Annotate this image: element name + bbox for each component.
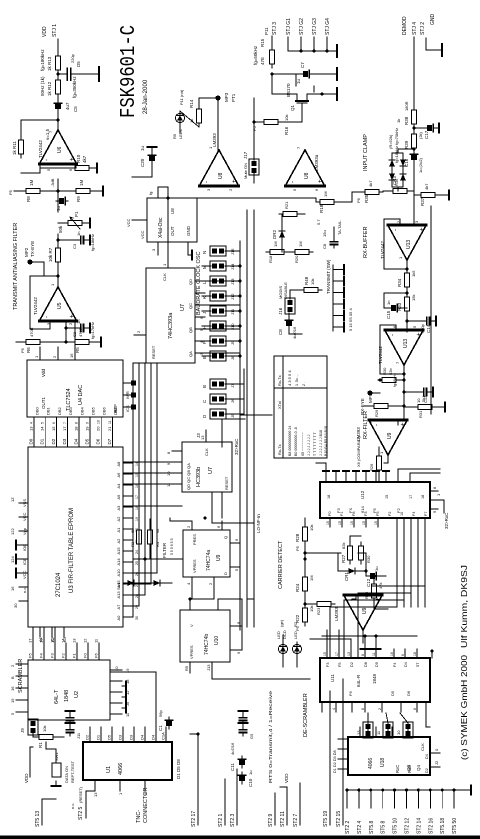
svg-text:A3: A3 — [116, 505, 121, 511]
capacitor C16 — [410, 151, 417, 163]
svg-text:1u: 1u — [140, 145, 145, 151]
demod input long wire — [413, 37, 415, 210]
svg-text:D1: D1 — [40, 438, 45, 444]
svg-text:n.c.: n.c. — [22, 587, 27, 593]
svg-text:J J J J J J J B18: J J J J J J J B18 — [319, 430, 323, 456]
wire R16 to mute line — [254, 121, 260, 123]
svg-text:F4: F4 — [393, 663, 397, 667]
svg-text:VSS: VSS — [22, 499, 27, 507]
svg-text:D1 D2 D3 D8: D1 D2 D3 D8 — [333, 750, 337, 773]
U9 clk wire — [170, 520, 192, 522]
IC U7 74HC393 baudrate counter — [146, 268, 195, 363]
svg-text:6k: 6k — [155, 529, 160, 533]
svg-text:ST2 7: ST2 7 — [293, 813, 299, 827]
svg-text:6: 6 — [314, 188, 319, 191]
capacitor C14 — [423, 317, 433, 324]
LED D3 — [175, 111, 184, 125]
svg-text:J2: J2 — [434, 760, 439, 765]
svg-text:19: 19 — [85, 426, 90, 431]
svg-text:7: 7 — [63, 422, 67, 424]
resistor R39 — [411, 130, 416, 152]
measurement point MP2 TX-EYE — [27, 259, 32, 264]
svg-text:2: 2 — [68, 322, 73, 325]
U5a feedback — [30, 275, 58, 277]
svg-text:B: B — [10, 676, 15, 679]
diode DR2 — [279, 227, 285, 241]
resistor R35 — [361, 189, 383, 194]
IC U9 74HC74 flipflop — [183, 530, 230, 577]
svg-text:(ge): (ge) — [279, 619, 284, 627]
svg-text:n.c.: n.c. — [70, 803, 75, 809]
svg-text:STJ G2: STJ G2 — [299, 18, 305, 35]
svg-text:56p: 56p — [158, 710, 163, 717]
svg-text:1u: 1u — [248, 771, 253, 775]
U7 reset pin — [134, 334, 146, 336]
svg-text:F2: F2 — [388, 512, 392, 516]
resistor R15 — [269, 46, 274, 68]
svg-text:/CS: /CS — [125, 405, 130, 412]
pot top wire — [58, 222, 64, 224]
svg-text:RxC: RxC — [395, 765, 400, 773]
svg-text:15: 15 — [135, 473, 139, 477]
svg-text:18: 18 — [327, 495, 331, 499]
svg-text:122: 122 — [10, 528, 15, 535]
svg-text:C8: C8 — [322, 243, 327, 249]
svg-text:9: 9 — [86, 422, 90, 424]
svg-text:14: 14 — [135, 462, 139, 466]
svg-text:GND: GND — [430, 14, 436, 26]
svg-text:Vdd: Vdd — [41, 368, 46, 377]
svg-text:10: 10 — [396, 730, 401, 735]
svg-text:6: 6 — [234, 538, 239, 541]
resistor R10 — [71, 165, 93, 170]
U12 right pins with decoupling grounds — [323, 471, 389, 482]
svg-text:C17: C17 — [424, 130, 429, 139]
svg-text:C7: C7 — [300, 62, 305, 68]
svg-text:17: 17 — [135, 495, 139, 499]
svg-text:16: 16 — [10, 586, 15, 591]
address bus lines — [133, 363, 160, 617]
capacitor C15 — [388, 304, 400, 311]
LO-NF-In line — [253, 210, 255, 627]
svg-text:16: 16 — [390, 652, 394, 656]
svg-text:D4: D4 — [140, 734, 145, 740]
svg-text:STJ 2: STJ 2 — [420, 22, 426, 35]
svg-text:15u: 15u — [322, 230, 327, 237]
svg-text:1M: 1M — [309, 575, 314, 581]
U1 left pins — [94, 780, 96, 791]
wire pot to ecap C20 — [57, 201, 59, 212]
svg-text:P11: P11 — [264, 27, 269, 35]
U13b output wire — [403, 365, 405, 373]
U11 left pins — [322, 702, 417, 712]
op-amp U14b PLL comparator — [344, 595, 383, 630]
svg-text:B0 00000000-0 -8: B0 00000000-0 -8 — [294, 427, 298, 456]
svg-text:1M: 1M — [79, 179, 84, 186]
svg-text:PT1: PT1 — [231, 93, 236, 102]
wire U6 minus input — [75, 164, 77, 168]
svg-text:F2: F2 — [61, 653, 66, 658]
vertical trunk wire — [240, 414, 272, 416]
svg-text:U13: U13 — [406, 240, 412, 249]
svg-text:1u: 1u — [296, 78, 301, 84]
svg-text:U9: U9 — [387, 432, 393, 439]
svg-text:LED: LED — [293, 631, 298, 639]
svg-text:8: 8 — [413, 708, 417, 710]
svg-text:C20: C20 — [140, 158, 145, 167]
address bus to counters — [205, 352, 240, 354]
svg-text:fg=180kHz: fg=180kHz — [40, 49, 45, 71]
transistor Q1 BS170 — [293, 94, 311, 108]
jumper J3 — [403, 722, 413, 738]
svg-text:D4: D4 — [425, 754, 429, 759]
svg-text:DB2: DB2 — [57, 406, 62, 415]
svg-text:U8: U8 — [170, 208, 175, 214]
svg-text:64L-R: 64L-R — [356, 674, 361, 687]
svg-text:RX-BUFFER: RX-BUFFER — [363, 227, 369, 259]
jumper wires U11-U18 — [367, 723, 369, 737]
IC U2 scrambler 64L-T — [28, 660, 110, 720]
svg-text:82k: 82k — [341, 543, 346, 549]
IC U1 TNC connector block — [83, 742, 172, 780]
svg-text:14: 14 — [40, 426, 45, 431]
U9 pins — [191, 577, 193, 587]
svg-text:Ulf Kumm, DK9SJ: Ulf Kumm, DK9SJ — [459, 565, 469, 648]
resistor R14 — [196, 105, 201, 127]
svg-text:64L-T: 64L-T — [54, 689, 60, 704]
svg-text:8: 8 — [361, 708, 365, 710]
wire C5 to opamp U6 — [57, 112, 59, 130]
resistor R4 filter select — [147, 526, 152, 548]
svg-text:ST2 14: ST2 14 — [416, 818, 422, 834]
svg-text:ST2 9: ST2 9 — [268, 813, 274, 827]
svg-text:STJ G1: STJ G1 — [286, 18, 292, 35]
svg-text:1k R12: 1k R12 — [47, 81, 52, 96]
wire to U18 — [425, 702, 427, 727]
svg-text:U12: U12 — [360, 490, 365, 499]
svg-text:D5: D5 — [107, 734, 112, 740]
svg-text:17: 17 — [28, 638, 33, 643]
svg-text:U8: U8 — [304, 172, 310, 179]
svg-text:U9: U9 — [216, 554, 222, 561]
svg-text:DB7: DB7 — [113, 406, 118, 415]
carrier detect wires — [358, 552, 366, 554]
svg-text:OUT1: OUT1 — [41, 397, 46, 409]
long bus line B — [246, 210, 248, 627]
resistor R37 — [417, 192, 439, 197]
svg-text:U11: U11 — [330, 674, 335, 682]
svg-text:U8: U8 — [218, 172, 224, 179]
svg-text:A7: A7 — [116, 604, 121, 610]
svg-text:-: - — [44, 316, 50, 318]
svg-text:R35: R35 — [364, 194, 369, 203]
svg-text:F1: F1 — [340, 512, 344, 516]
svg-text:F0: F0 — [328, 512, 332, 516]
svg-text:U18: U18 — [380, 758, 386, 767]
svg-text:F5: F5 — [338, 663, 342, 667]
svg-text:A2: A2 — [116, 538, 121, 544]
svg-text:4: 4 — [30, 422, 34, 424]
svg-text:15: 15 — [362, 521, 366, 525]
svg-text:U6: U6 — [57, 146, 63, 153]
filter select wires — [138, 548, 140, 559]
svg-text:17: 17 — [62, 426, 67, 431]
svg-text:ST5.8: ST5.8 — [369, 820, 375, 834]
U11 right pin grounds — [361, 649, 370, 653]
svg-text:R3: R3 — [130, 541, 135, 547]
LED to R14 wire — [180, 111, 199, 127]
svg-text:2: 2 — [10, 664, 15, 667]
transistor D5 mosfet — [58, 73, 67, 75]
svg-text:1: 1 — [398, 256, 403, 259]
svg-text:+: + — [419, 227, 425, 231]
svg-text:J3: J3 — [196, 433, 201, 438]
junction dots misc — [204, 517, 207, 520]
svg-text:B10 B4 B5 B3 B18: B10 B4 B5 B3 B18 — [324, 426, 328, 456]
svg-text:1u (2u2): 1u (2u2) — [418, 157, 423, 173]
ground pins above U3 — [16, 569, 19, 578]
svg-text:VCC: VCC — [22, 512, 27, 521]
IC U12 FX614 modem — [320, 482, 430, 518]
svg-text:RxD: RxD — [407, 765, 412, 773]
svg-text:05 ~~~~~~~~~: 05 ~~~~~~~~~ — [301, 432, 305, 456]
svg-text:VDD: VDD — [284, 773, 289, 783]
svg-text:CLK: CLK — [162, 273, 167, 281]
svg-text:TRANSMIT (SW): TRANSMIT (SW) — [326, 259, 331, 294]
svg-text:U7: U7 — [180, 304, 186, 311]
svg-text:P5: P5 — [20, 347, 25, 353]
svg-text:D3: D3 — [129, 734, 134, 740]
wires U7b to U12 — [221, 492, 223, 518]
op-amp U13b RX filter — [385, 330, 424, 365]
svg-text:TLV2442: TLV2442 — [33, 297, 38, 315]
svg-text:0: 0 — [434, 748, 439, 751]
svg-text:DB1: DB1 — [46, 406, 51, 415]
U18 right pins — [359, 727, 361, 737]
second jumper group J5-J7 — [210, 369, 244, 419]
svg-text:15: 15 — [326, 521, 330, 525]
svg-text:CR1: CR1 — [344, 572, 349, 581]
svg-text:U7: U7 — [208, 467, 214, 474]
svg-text:13: 13 — [93, 792, 98, 797]
svg-text:P5: P5 — [295, 545, 300, 551]
svg-text:DB4: DB4 — [79, 406, 84, 415]
svg-text:10k R7: 10k R7 — [48, 247, 53, 262]
STJ G bus vertical with ground — [288, 50, 337, 52]
svg-text:470R: 470R — [78, 327, 83, 337]
wire R34 to R33 — [406, 291, 408, 293]
wire R7 to pot — [57, 234, 59, 244]
svg-text:QC: QC — [188, 303, 193, 309]
wire U8a out to MP3 node — [217, 98, 219, 150]
left bus stubs — [345, 789, 458, 835]
svg-text:R10: R10 — [76, 154, 81, 163]
svg-text:16: 16 — [10, 686, 15, 691]
svg-text:J11: J11 — [76, 732, 81, 739]
svg-text:16: 16 — [135, 484, 139, 488]
svg-text:1: 1 — [34, 355, 39, 358]
resistor R21 — [279, 211, 301, 216]
svg-text:DB5: DB5 — [91, 406, 96, 415]
svg-text:-: - — [374, 424, 380, 426]
svg-text:11: 11 — [372, 652, 376, 656]
caps near U2 — [66, 726, 73, 736]
DIP settings table — [274, 356, 327, 458]
analog ground rail — [430, 206, 432, 414]
wires J16 C8 — [288, 313, 290, 317]
U11 pin 1 5 stubs right — [431, 651, 433, 658]
resistor R28 — [302, 523, 307, 545]
svg-text:15: 15 — [350, 521, 354, 525]
svg-text:9: 9 — [433, 511, 437, 513]
svg-text:J J J J J J J J: J J J J J J J J — [307, 434, 311, 456]
svg-text:15: 15 — [50, 638, 55, 643]
svg-text:DISABLE: DISABLE — [283, 282, 288, 299]
svg-text:QD QC QB QA: QD QC QB QA — [186, 463, 191, 490]
left bus vertical — [347, 789, 466, 791]
svg-text:4 3 5 5 4: 4 3 5 5 4 — [287, 370, 292, 386]
svg-text:16: 16 — [69, 353, 74, 358]
svg-text:D5: D5 — [76, 61, 81, 67]
svg-text:U4 DAC: U4 DAC — [78, 385, 84, 405]
svg-text:4k7: 4k7 — [424, 183, 429, 190]
capacitor C5 — [54, 100, 61, 112]
svg-text:+: + — [70, 157, 76, 161]
svg-text:Q: Q — [223, 536, 228, 539]
svg-text:VCC: VCC — [126, 218, 131, 227]
U4 data input labels — [30, 406, 118, 424]
svg-text:DB6: DB6 — [102, 406, 107, 415]
svg-text:STJ G3: STJ G3 — [312, 18, 318, 35]
svg-text:R5: R5 — [184, 665, 189, 671]
modem right bus wires — [325, 463, 327, 473]
svg-text:10k: 10k — [42, 726, 47, 732]
wire DAC out to U5a plus — [74, 321, 76, 347]
svg-text:25: 25 — [135, 561, 139, 565]
svg-text:P5: P5 — [252, 125, 257, 131]
svg-text:D0: D0 — [29, 438, 34, 444]
svg-text:1M: 1M — [298, 241, 303, 247]
svg-text:D1: D1 — [96, 734, 101, 740]
svg-text:J9: J9 — [20, 728, 25, 733]
svg-text:11: 11 — [108, 420, 112, 424]
U13a output wire — [406, 260, 408, 268]
op-amp U5a TLV2442a — [39, 287, 76, 321]
svg-text:470R: 470R — [29, 327, 34, 337]
svg-text:HC393b: HC393b — [196, 467, 202, 487]
IC U11 descrambler 64L-R — [320, 658, 430, 702]
jumper J2 — [383, 722, 393, 738]
svg-text:15: 15 — [374, 521, 378, 525]
jumper J16 — [285, 298, 295, 314]
svg-text:C2: C2 — [72, 331, 77, 337]
svg-text:DATA ON: DATA ON — [64, 766, 69, 783]
svg-text:10k: 10k — [309, 606, 314, 612]
svg-text:13: 13 — [72, 638, 77, 643]
svg-text:C3: C3 — [72, 243, 77, 249]
svg-text:+: + — [70, 314, 76, 318]
svg-text:R23: R23 — [316, 607, 321, 615]
U7 output pins bottom — [188, 279, 205, 357]
svg-text:ST5 8: ST5 8 — [381, 820, 387, 834]
svg-text:10k: 10k — [310, 279, 315, 285]
svg-text:1: 1 — [118, 792, 123, 795]
svg-text:17: 17 — [335, 652, 339, 656]
svg-text:15: 15 — [323, 652, 327, 656]
svg-text:10: 10 — [400, 512, 404, 516]
resistor R13 — [55, 52, 60, 74]
svg-text:15: 15 — [338, 521, 342, 525]
jumper J1 — [363, 722, 373, 738]
wires bias — [288, 251, 291, 253]
svg-text:TA-TAIL: TA-TAIL — [337, 220, 342, 235]
svg-text:Vpp: Vpp — [22, 527, 27, 535]
measurement point MP1 — [367, 390, 372, 395]
svg-text:ST5 19: ST5 19 — [323, 811, 329, 827]
svg-text:A15: A15 — [116, 547, 121, 555]
svg-text:74HC393a: 74HC393a — [168, 312, 174, 339]
jumper J17 mute — [249, 159, 259, 175]
svg-text:U13: U13 — [403, 339, 409, 348]
svg-text:1k5: 1k5 — [411, 270, 416, 277]
bus drops left — [239, 627, 241, 630]
Q1 drain wire to R15 node — [272, 93, 293, 95]
wire R12-R13 — [57, 74, 59, 76]
svg-text:11: 11 — [166, 482, 171, 487]
op-amp U8a LM393 — [199, 150, 239, 186]
svg-text:6: 6 — [52, 422, 56, 424]
U7 clock pin — [167, 255, 169, 268]
svg-text:Mute ON: Mute ON — [243, 163, 248, 179]
transmit switch rail — [332, 265, 334, 331]
U5 pins — [157, 242, 159, 255]
svg-text:Sw1: Sw1 — [116, 581, 121, 590]
xtal osc out wire — [158, 186, 168, 188]
U1 right edge pins — [85, 727, 167, 742]
U2 right pins to U3 — [28, 627, 100, 660]
comparator out to modem — [387, 455, 389, 463]
jumper J9 — [28, 719, 38, 735]
svg-text:P1: P1 — [74, 211, 79, 217]
svg-text:LO-NF-In: LO-NF-In — [256, 514, 261, 533]
svg-text:3: 3 — [206, 188, 211, 191]
svg-text:74HC74a: 74HC74a — [206, 550, 212, 571]
svg-text:10: 10 — [97, 420, 101, 424]
svg-text:GND: GND — [186, 225, 191, 236]
U12 left pins F-bus — [326, 518, 425, 607]
jumper row bus — [225, 241, 242, 358]
svg-text:LM393a: LM393a — [314, 154, 319, 171]
svg-text:+: + — [318, 179, 324, 183]
svg-text:4u7/16: 4u7/16 — [230, 742, 235, 755]
resistor R3 filter select — [136, 526, 141, 548]
svg-text:(RESET): (RESET) — [78, 786, 83, 803]
svg-text:fg=18kHz fg=70kHz: fg=18kHz fg=70kHz — [394, 128, 399, 163]
svg-text:5: 5 — [234, 568, 239, 571]
svg-text:2: 2 — [52, 355, 57, 358]
svg-text:ST5 50: ST5 50 — [452, 818, 458, 834]
comparator input wire — [403, 403, 405, 420]
svg-text:DEMOD: DEMOD — [402, 16, 408, 35]
svg-text:Rx-Tx: Rx-Tx — [277, 375, 282, 386]
capacitor C12 — [367, 572, 379, 579]
switch SW1 — [52, 763, 61, 777]
svg-text:V: V — [189, 624, 194, 627]
svg-text:CARRIER DETECT: CARRIER DETECT — [278, 540, 284, 589]
resistor R9 — [72, 188, 94, 193]
svg-text:18: 18 — [413, 652, 417, 656]
svg-text:F5: F5 — [28, 653, 33, 658]
